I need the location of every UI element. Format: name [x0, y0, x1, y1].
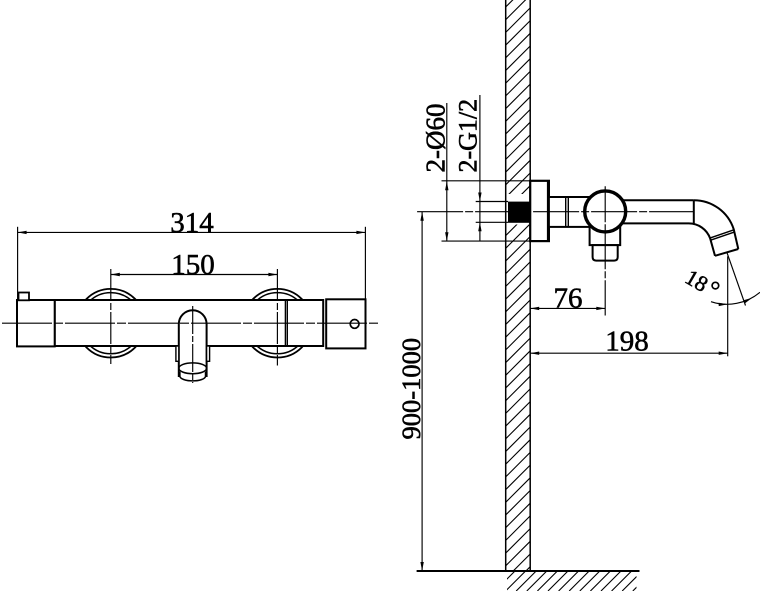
- button on right knob: [350, 320, 359, 329]
- 18 degree dimension arc: [711, 292, 760, 304]
- wall hatching: [506, 0, 531, 591]
- svg-text:2-Ø60: 2-Ø60: [421, 104, 451, 173]
- dimension 198 left arrow: [530, 352, 539, 355]
- dimension 314 right arrow: [356, 231, 365, 234]
- dimension 76 line: [530, 307, 605, 309]
- spout top line: [605, 199, 694, 201]
- G1/2 extension line top: [476, 201, 508, 203]
- Ø60 extension line top: [442, 180, 531, 182]
- nut joint line 1: [565, 197, 567, 227]
- dimension 314 left extension line: [17, 227, 19, 300]
- dimension 314 line: [18, 231, 366, 233]
- wall right edge: [529, 0, 531, 571]
- escutcheon flange left (outer circle): [77, 289, 146, 358]
- valve body below circle: [590, 222, 621, 245]
- 18 degree vertical reference line: [727, 256, 729, 356]
- dimension 76 right arrow: [596, 307, 605, 310]
- svg-text:2-G1/2: 2-G1/2: [454, 99, 483, 173]
- spout inner bend: [689, 223, 716, 255]
- svg-text:76: 76: [554, 282, 583, 314]
- spout tip face: [715, 249, 738, 256]
- escutcheon plate side view: [530, 181, 549, 241]
- dimension 198 right arrow: [719, 352, 728, 355]
- horizontal centerline side view: [417, 211, 693, 213]
- spout rim ellipse: [179, 363, 207, 374]
- floor hatching: [495, 571, 653, 591]
- svg-text:198: 198: [605, 326, 649, 358]
- spout right tab: [207, 346, 210, 361]
- nut joint line 2: [567, 197, 569, 227]
- degree symbol of 18 degree label: [712, 282, 719, 289]
- spout straight section fill: [605, 200, 694, 223]
- svg-text:150: 150: [171, 249, 215, 281]
- flow handle (right knob): [326, 299, 365, 348]
- dimension 314 left arrow: [18, 231, 27, 234]
- 18 degree inclined axis line: [727, 252, 746, 305]
- temperature handle (left knob): [17, 300, 55, 346]
- body joint lines near right flange: [284, 300, 286, 346]
- vertical centerline left flange: [110, 269, 112, 364]
- escutcheon flange right (inner circle): [247, 293, 308, 354]
- dimension 150 left arrow: [111, 273, 120, 276]
- Ø60 extension line bottom: [442, 240, 531, 242]
- escutcheon plate right edge (thick): [547, 181, 550, 241]
- vertical centerline right flange: [276, 269, 278, 366]
- spout outer bend: [694, 200, 739, 249]
- connecting pipe and nut: [549, 197, 590, 227]
- dimension 76 left arrow: [530, 307, 539, 310]
- dimension 900-1000 bottom arrow: [420, 562, 423, 571]
- aerator joint line 1: [711, 230, 734, 238]
- spout bottom cap: [180, 372, 206, 381]
- Ø60 arrow down: [445, 232, 448, 241]
- aerator joint line 2: [711, 232, 734, 240]
- escutcheon flange left (inner circle): [80, 293, 141, 354]
- Ø60 arrow up: [445, 181, 448, 190]
- Ø60 dimension line: [446, 103, 448, 241]
- spout (front view) outline: [179, 310, 207, 377]
- wall left edge: [505, 0, 507, 571]
- spout left tab: [176, 346, 179, 361]
- dimension 150 line: [111, 274, 278, 276]
- 18 degree arc arrow left: [719, 303, 728, 307]
- dimension 900-1000 line: [421, 212, 423, 571]
- G1/2 extension line bottom: [476, 221, 508, 223]
- dimension 150 right arrow: [268, 273, 277, 276]
- vertical centerline through valve: [604, 186, 606, 315]
- valve handle circle side view: [585, 191, 626, 232]
- dimension 198 line: [530, 352, 728, 354]
- G1/2 arrow down: [478, 193, 481, 202]
- horizontal centerline front view: [2, 322, 379, 324]
- 18 degree arc arrow right: [744, 296, 754, 303]
- dimension 314 right extension line: [364, 227, 366, 299]
- dimension 900-1000 top arrow: [420, 212, 423, 221]
- mixer body bar: [55, 300, 324, 346]
- svg-text:900-1000: 900-1000: [396, 338, 426, 440]
- lower nut: [593, 245, 618, 261]
- floor line: [417, 570, 640, 572]
- svg-text:314: 314: [170, 207, 214, 239]
- spout bottom line: [605, 222, 689, 224]
- escutcheon flange right (outer circle): [243, 289, 312, 358]
- G1/2 dimension line: [479, 95, 481, 241]
- G1/2 arrow up: [478, 222, 481, 231]
- safety button on left knob: [19, 293, 30, 301]
- spout joint line at bend: [693, 200, 695, 223]
- wall pipe pass-through (solid section): [508, 202, 530, 223]
- spout (front view) body fill: [179, 310, 207, 377]
- vertical centerline spout front view: [192, 306, 194, 383]
